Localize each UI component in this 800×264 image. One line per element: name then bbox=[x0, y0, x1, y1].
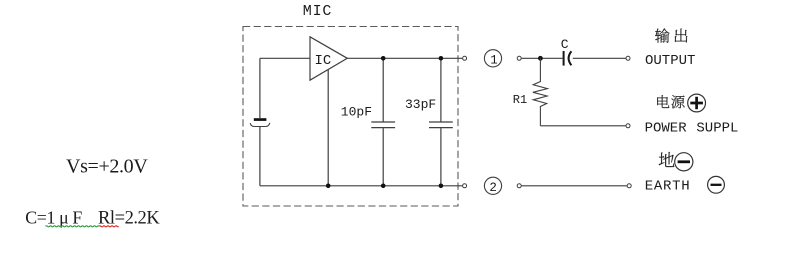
junction: 10pF top bbox=[381, 56, 386, 61]
op-amp U1 (IC triangle) bbox=[310, 37, 347, 80]
capacitor C2 33pF bbox=[429, 58, 453, 186]
terminal pin: left end of earth wire bbox=[517, 184, 521, 188]
svg-text:C=1 μ F: C=1 μ F bbox=[25, 208, 82, 228]
svg-text:R1: R1 bbox=[513, 93, 527, 107]
power symbol circled plus bbox=[688, 94, 706, 112]
label EARTH bbox=[645, 178, 691, 194]
spellcheck squiggle (green) under 1uF bbox=[46, 226, 100, 227]
svg-text:EARTH: EARTH bbox=[645, 178, 691, 194]
wire: op-amp output to terminal 1 rail bbox=[347, 57, 462, 59]
junction: 33pF top bbox=[439, 56, 444, 61]
wire: op-amp ground pin down to ground rail bbox=[327, 70, 329, 186]
capacitor C (coupling, polarized) bbox=[564, 51, 572, 66]
spellcheck squiggle (red) under Rl bbox=[99, 226, 119, 227]
enclosure: dashed MIC module box bbox=[243, 27, 458, 207]
terminal pin: EARTH bbox=[627, 184, 631, 188]
terminal pin: POWER SUPPLY bbox=[626, 124, 630, 128]
minus symbol circled minus (after EARTH) bbox=[708, 176, 725, 193]
svg-text:Vs=+2.0V: Vs=+2.0V bbox=[66, 156, 148, 178]
svg-text:OUTPUT: OUTPUT bbox=[645, 53, 695, 69]
label R1 bbox=[513, 93, 527, 107]
svg-text:SUPPL: SUPPL bbox=[696, 121, 738, 137]
label 10pF bbox=[341, 105, 372, 120]
label C bbox=[561, 37, 569, 52]
wire: node 2 to EARTH pin bbox=[521, 185, 627, 187]
wire: capacitor C to OUTPUT pin bbox=[573, 57, 626, 59]
label 地 (earth, Chinese) bbox=[659, 152, 675, 167]
text C=1uF Rl=2.2K bbox=[25, 208, 160, 229]
label IC (op-amp designator) bbox=[315, 53, 332, 69]
wire: left vertical, input node down to capsule bbox=[259, 58, 261, 118]
junction: op-amp pin / ground rail bbox=[326, 184, 331, 189]
svg-text:POWER: POWER bbox=[645, 121, 688, 137]
label 33pF bbox=[405, 97, 436, 112]
svg-text:10pF: 10pF bbox=[341, 105, 372, 120]
svg-text:IC: IC bbox=[315, 53, 332, 69]
capacitor C1 10pF bbox=[371, 58, 395, 186]
wire: node 1 to coupling capacitor C bbox=[521, 57, 562, 59]
label MIC bbox=[303, 3, 332, 20]
terminal pin: module output (top, on box edge) bbox=[463, 56, 467, 60]
resistor R1 (zigzag) bbox=[533, 58, 548, 126]
label 输出 (output, Chinese) bbox=[655, 28, 687, 42]
node 2 (circled 2) bbox=[484, 177, 501, 195]
wire: ground rail (bottom) bbox=[260, 185, 462, 187]
wire: capsule bottom down to ground rail bbox=[259, 127, 261, 186]
junction: 10pF bottom bbox=[381, 184, 386, 189]
wire: input node horizontal (capsule top to op-amp input) bbox=[260, 57, 310, 59]
label OUTPUT bbox=[645, 53, 695, 69]
svg-text:1: 1 bbox=[490, 53, 498, 67]
text Vs=+2.0V bbox=[66, 156, 148, 178]
node 1 (circled 1) bbox=[484, 50, 501, 68]
wire: R1 bottom to POWER SUPPLY pin bbox=[540, 125, 626, 127]
terminal pin: OUTPUT bbox=[626, 56, 630, 60]
label 电源 (power, Chinese) bbox=[657, 95, 684, 108]
svg-text:MIC: MIC bbox=[303, 3, 332, 20]
svg-text:33pF: 33pF bbox=[405, 97, 436, 112]
terminal pin: module ground (bottom, on box edge) bbox=[463, 184, 467, 188]
terminal pin: left end of output wire bbox=[517, 56, 521, 60]
svg-text:C: C bbox=[561, 37, 569, 52]
junction: R1 tap on output wire bbox=[538, 56, 543, 61]
label POWER SUPPL bbox=[645, 121, 739, 137]
svg-text:2: 2 bbox=[489, 181, 497, 195]
minus symbol circled minus (after 地) bbox=[675, 153, 693, 171]
electret capsule element (thick plate + cup plate) bbox=[250, 118, 270, 126]
junction: 33pF bottom bbox=[439, 184, 444, 189]
